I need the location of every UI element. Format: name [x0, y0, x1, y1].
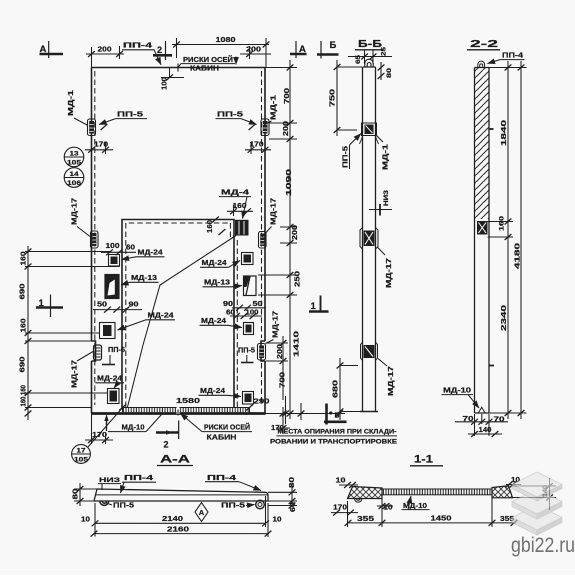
- svg-text:65: 65: [355, 55, 362, 64]
- B-B embed MD-17 upper: [360, 228, 378, 250]
- embed MD-24 right top: [242, 253, 254, 265]
- svg-text:КАБИН: КАБИН: [207, 435, 237, 442]
- 2-2 level tick upper: [489, 128, 494, 130]
- svg-text:160: 160: [21, 318, 28, 332]
- 1-1 right end dims: [513, 478, 557, 510]
- A-A quality diamond: [195, 503, 208, 522]
- A-A left lifting loop: [100, 501, 109, 505]
- svg-text:РОВАНИИ И ТРАНСПОРТИРОВКЕ: РОВАНИИ И ТРАНСПОРТИРОВКЕ: [270, 439, 398, 446]
- inner dashed contour right: [261, 71, 263, 338]
- A-A right thickness dim 80: [268, 484, 297, 507]
- embed MD-24 left top: [109, 255, 120, 267]
- svg-text:25: 25: [381, 47, 388, 56]
- embed MD-13 left (dark box with white wedge): [105, 275, 119, 299]
- svg-text:1080: 1080: [216, 35, 236, 44]
- B-B embed MD-17 lower: [361, 342, 378, 361]
- riska notch top center: [177, 64, 179, 72]
- svg-text:МД-1: МД-1: [383, 144, 390, 170]
- position circle 17/105: [72, 445, 91, 464]
- svg-text:МД-24: МД-24: [202, 260, 227, 267]
- inner dashed contour left: [94, 71, 96, 405]
- svg-text:70: 70: [494, 417, 505, 424]
- svg-text:170: 170: [333, 505, 347, 512]
- embed PP-5 left edge: [88, 119, 96, 136]
- right dimension chain B: [266, 336, 289, 400]
- 2-2 dim chain outer (4180): [520, 61, 522, 419]
- svg-text:1410: 1410: [294, 331, 301, 357]
- svg-text:МД-10: МД-10: [403, 503, 427, 510]
- svg-text:100: 100: [160, 77, 169, 90]
- bottom support strip (hatched): [123, 408, 250, 414]
- svg-text:МД-24: МД-24: [201, 318, 226, 325]
- top dimension 200 right: dim line: [240, 53, 271, 55]
- svg-text:106: 106: [67, 180, 81, 187]
- support bracket symbol (mesta opiraniya): [325, 404, 328, 425]
- 2-2 column body with hatch: [475, 68, 490, 220]
- A-A dim 2140: [95, 496, 266, 537]
- panel bottom edge (thick): [91, 412, 266, 415]
- watermark slab 1 (top): [512, 472, 562, 501]
- svg-text:250: 250: [295, 271, 302, 287]
- svg-text:МД-24: МД-24: [200, 388, 225, 395]
- 2-2 bottom V notch: [478, 407, 485, 413]
- svg-text:80: 80: [289, 477, 296, 488]
- svg-text:А: А: [299, 44, 306, 55]
- svg-text:МД-4: МД-4: [221, 188, 250, 197]
- embed MD-13 right (open box, dark left wedge, diagonal): [244, 276, 257, 296]
- riska notch bottom strip: [177, 407, 180, 415]
- left dimension chain: [25, 246, 120, 420]
- svg-text:МД-13: МД-13: [131, 275, 157, 282]
- embed MD-24 right mid: [244, 323, 254, 335]
- svg-text:НИЗ: НИЗ: [383, 190, 390, 206]
- svg-text:ПП-4: ПП-4: [123, 41, 153, 50]
- section marker 2 bottom: [156, 431, 179, 434]
- svg-text:Б: Б: [330, 40, 337, 51]
- svg-text:ПП-5: ПП-5: [113, 501, 134, 510]
- door opening outline: [122, 220, 234, 408]
- section marker A top-left: [36, 41, 347, 439]
- svg-text:Б-Б: Б-Б: [358, 38, 383, 50]
- svg-text:МД-13: МД-13: [204, 280, 230, 287]
- svg-text:80: 80: [73, 488, 80, 499]
- svg-text:140: 140: [479, 427, 492, 434]
- B-B dim 750: [337, 60, 362, 136]
- right dimension chain A: [258, 60, 297, 419]
- svg-text:170: 170: [250, 142, 264, 149]
- A-A body: [94, 489, 268, 501]
- svg-text:ПП-4: ПП-4: [207, 473, 237, 482]
- svg-text:70: 70: [463, 416, 474, 423]
- 1-1 lifting loop: [355, 499, 362, 503]
- svg-text:2160: 2160: [167, 525, 189, 534]
- svg-text:РИСКИ ОСЕЙ: РИСКИ ОСЕЙ: [204, 423, 250, 432]
- svg-text:gbi22.ru: gbi22.ru: [511, 534, 575, 557]
- svg-text:ПП-5: ПП-5: [221, 501, 245, 510]
- svg-text:МД-10: МД-10: [122, 425, 145, 432]
- svg-text:КАБИН: КАБИН: [190, 66, 219, 73]
- svg-text:2: 2: [157, 45, 162, 55]
- svg-text:355: 355: [357, 514, 374, 523]
- svg-text:700: 700: [284, 88, 291, 104]
- svg-text:690: 690: [20, 283, 27, 299]
- position circle 14/106: [64, 168, 84, 188]
- svg-text:200: 200: [246, 45, 261, 54]
- svg-text:ПП-5: ПП-5: [343, 146, 350, 168]
- embed PP-5 right edge: [261, 119, 269, 136]
- B-B level mark: [369, 209, 392, 211]
- door opening dashed offset: [126, 223, 238, 407]
- embed MD-24 left bottom: [108, 389, 120, 404]
- svg-text:МД-17: МД-17: [72, 198, 79, 225]
- svg-text:200: 200: [98, 45, 112, 54]
- embed MD-24 right bottom: [243, 392, 254, 405]
- svg-text:200: 200: [292, 225, 299, 240]
- svg-text:160: 160: [499, 215, 506, 231]
- section marker 1 left: [36, 306, 63, 309]
- svg-text:160: 160: [21, 251, 28, 265]
- svg-text:17: 17: [77, 448, 86, 455]
- step figure 100 at top: [169, 68, 171, 78]
- svg-text:НИЗ: НИЗ: [99, 477, 120, 484]
- svg-text:1: 1: [39, 298, 45, 309]
- svg-text:МД-1: МД-1: [68, 90, 75, 116]
- svg-text:ПП-4: ПП-4: [502, 51, 524, 60]
- svg-text:2140: 2140: [162, 514, 183, 523]
- section marker A top-right: [290, 53, 307, 56]
- B-B embed PP-5: [362, 123, 377, 136]
- svg-text:А: А: [199, 508, 205, 517]
- svg-text:МД-1: МД-1: [271, 95, 278, 120]
- svg-text:14: 14: [70, 171, 79, 178]
- svg-text:200: 200: [283, 121, 290, 136]
- svg-text:200: 200: [277, 344, 284, 359]
- svg-text:100: 100: [246, 310, 259, 317]
- svg-text:10: 10: [273, 517, 282, 524]
- svg-text:80: 80: [386, 67, 393, 78]
- svg-text:2-2: 2-2: [470, 38, 498, 50]
- embed MD-17 left edge: [91, 231, 99, 248]
- svg-text:МД-17: МД-17: [271, 198, 278, 225]
- embed MD-17 left notch: [94, 345, 102, 360]
- 2-2 embed: [477, 221, 488, 235]
- svg-text:ПП-5: ПП-5: [108, 347, 125, 354]
- 2-2 level tick: [489, 365, 494, 367]
- svg-text:1840: 1840: [501, 120, 508, 146]
- 1-1 bottom dim line 355/1450/355: [348, 497, 517, 527]
- B-B dim 680: [340, 358, 360, 420]
- svg-text:50: 50: [253, 301, 263, 308]
- svg-text:МД-17: МД-17: [386, 258, 393, 288]
- svg-text:105: 105: [67, 160, 81, 167]
- svg-text:МД-10: МД-10: [443, 388, 471, 395]
- svg-text:90: 90: [223, 301, 233, 308]
- svg-text:МД-17: МД-17: [72, 360, 79, 388]
- svg-text:1: 1: [311, 301, 317, 312]
- svg-text:МД-24: МД-24: [97, 376, 122, 383]
- svg-text:160: 160: [233, 203, 247, 210]
- leader circle 17/105 to strip corner: [88, 406, 124, 447]
- svg-text:ПП-4: ПП-4: [124, 473, 154, 482]
- svg-text:690: 690: [20, 356, 27, 372]
- B-B lifting loop top: [365, 59, 373, 67]
- svg-text:4180: 4180: [515, 243, 522, 269]
- position circle 13/105: [64, 147, 84, 167]
- svg-text:РИСКИ ОСЕЙ: РИСКИ ОСЕЙ: [183, 55, 233, 64]
- embed MD-4 plate at opening corner: [235, 220, 249, 236]
- svg-text:А-А: А-А: [160, 454, 190, 466]
- svg-text:МД-24: МД-24: [148, 313, 174, 320]
- watermark slab 2 (middle): [512, 489, 562, 519]
- svg-text:10: 10: [336, 478, 346, 485]
- svg-text:105: 105: [74, 457, 88, 464]
- svg-text:2340: 2340: [501, 305, 508, 331]
- A-A right lifting loop ring: [256, 500, 265, 509]
- svg-text:1580: 1580: [176, 396, 200, 405]
- section marker 2 top: [153, 54, 172, 57]
- A-A left thickness dim 80: [74, 483, 97, 506]
- 1-1 right end block: [492, 486, 513, 498]
- B-B top small dims: [348, 50, 392, 80]
- svg-text:13: 13: [70, 151, 79, 158]
- svg-text:160: 160: [21, 385, 28, 395]
- 1-1 left end block: [348, 487, 383, 499]
- section marker B top: [317, 53, 339, 56]
- 2-2 lifting loop: [478, 61, 485, 67]
- panel outline: main elevation view: [92, 68, 266, 414]
- B-B column body: [360, 67, 378, 412]
- svg-text:10: 10: [81, 517, 90, 524]
- watermark slab 3 (bottom): [512, 505, 562, 535]
- svg-text:1450: 1450: [431, 514, 452, 523]
- svg-text:1-1: 1-1: [414, 454, 433, 466]
- svg-text:МЕСТА ОПИРАНИЯ ПРИ СКЛАДИ-: МЕСТА ОПИРАНИЯ ПРИ СКЛАДИ-: [278, 429, 397, 436]
- svg-text:700: 700: [280, 372, 287, 388]
- svg-text:680: 680: [333, 380, 340, 398]
- svg-text:290: 290: [254, 397, 270, 406]
- svg-text:А: А: [40, 44, 47, 55]
- svg-text:160: 160: [21, 396, 28, 406]
- 1-1 middle strip: [382, 489, 492, 495]
- svg-text:50: 50: [97, 302, 107, 309]
- svg-text:1090: 1090: [286, 169, 293, 196]
- svg-text:МД-17: МД-17: [388, 366, 395, 396]
- svg-text:2: 2: [164, 440, 169, 450]
- svg-text:60: 60: [126, 245, 135, 252]
- svg-text:ПП-5: ПП-5: [238, 348, 255, 355]
- svg-text:МД-24: МД-24: [138, 250, 163, 257]
- svg-text:МД-17: МД-17: [273, 311, 280, 338]
- top dimension 200 left: dim line: [86, 53, 124, 55]
- A-A dim 2160: [94, 503, 268, 537]
- long leader polyline from MD-4 plate to strip corner: [128, 236, 237, 408]
- svg-text:60: 60: [226, 310, 235, 317]
- leader arrow for riski osey: [235, 57, 237, 65]
- svg-text:90: 90: [129, 302, 139, 309]
- top dimension 1080: dim line: [172, 44, 269, 46]
- 2-2 dim chain inner (1840 / 160 / 2340): [488, 61, 527, 419]
- embed PP-5 right notch: [258, 344, 266, 361]
- section marker 1 right: [309, 310, 329, 313]
- svg-text:ПП-5: ПП-5: [217, 110, 243, 119]
- svg-text:ПП-5: ПП-5: [117, 110, 143, 119]
- svg-text:750: 750: [330, 89, 337, 107]
- 2-2 bottom dims 70/70/140: [455, 414, 508, 436]
- embed MD-17 right edge: [259, 232, 267, 249]
- embed MD-24 left mid: [100, 323, 116, 339]
